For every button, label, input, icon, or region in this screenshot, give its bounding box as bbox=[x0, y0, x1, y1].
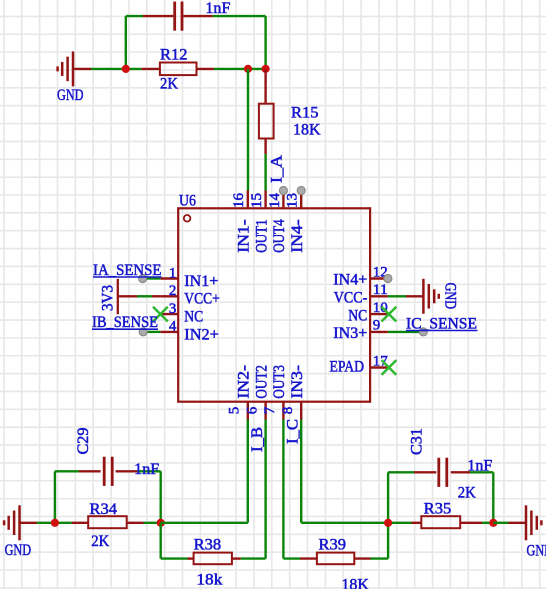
svg-text:7: 7 bbox=[262, 406, 278, 414]
svg-text:2K: 2K bbox=[91, 533, 109, 550]
svg-text:18K: 18K bbox=[341, 577, 369, 589]
svg-text:8: 8 bbox=[280, 407, 296, 415]
svg-text:IN2+: IN2+ bbox=[184, 326, 219, 343]
svg-text:1: 1 bbox=[169, 265, 177, 281]
svg-text:VCC-: VCC- bbox=[334, 290, 368, 307]
svg-text:16: 16 bbox=[231, 193, 247, 209]
svg-text:17: 17 bbox=[373, 353, 389, 369]
svg-text:1nF: 1nF bbox=[205, 0, 230, 17]
svg-text:18K: 18K bbox=[293, 122, 321, 139]
svg-text:4: 4 bbox=[169, 319, 177, 335]
svg-text:I_B: I_B bbox=[249, 427, 266, 452]
svg-text:I_A: I_A bbox=[269, 155, 286, 183]
svg-text:IN4-: IN4- bbox=[289, 219, 306, 253]
svg-text:GND: GND bbox=[442, 283, 459, 310]
svg-text:5: 5 bbox=[227, 407, 243, 415]
svg-text:10: 10 bbox=[373, 300, 388, 316]
svg-text:1nF: 1nF bbox=[467, 458, 492, 475]
svg-text:NC: NC bbox=[348, 307, 367, 324]
svg-text:R39: R39 bbox=[319, 536, 347, 553]
svg-text:R38: R38 bbox=[194, 536, 222, 553]
svg-text:IN1+: IN1+ bbox=[184, 273, 218, 290]
svg-text:OUT4: OUT4 bbox=[271, 219, 288, 253]
svg-text:C29: C29 bbox=[75, 428, 92, 455]
svg-text:18k: 18k bbox=[196, 572, 222, 589]
svg-text:IN2-: IN2- bbox=[236, 365, 253, 399]
svg-text:IN3+: IN3+ bbox=[333, 325, 367, 342]
svg-text:6: 6 bbox=[244, 406, 260, 414]
svg-text:NC: NC bbox=[184, 309, 203, 326]
svg-text:1nF: 1nF bbox=[134, 461, 159, 478]
svg-text:R15: R15 bbox=[291, 105, 319, 122]
svg-text:IN4+: IN4+ bbox=[333, 272, 367, 289]
svg-text:3V3: 3V3 bbox=[100, 285, 117, 311]
svg-text:U6: U6 bbox=[179, 193, 196, 210]
svg-text:R34: R34 bbox=[90, 501, 118, 518]
svg-text:IN3-: IN3- bbox=[289, 365, 306, 399]
svg-text:EPAD: EPAD bbox=[330, 358, 365, 375]
svg-text:I_C: I_C bbox=[285, 419, 302, 444]
svg-text:OUT1: OUT1 bbox=[253, 219, 270, 253]
svg-text:9: 9 bbox=[373, 318, 381, 334]
svg-text:C31: C31 bbox=[409, 428, 426, 455]
svg-text:2K: 2K bbox=[160, 76, 178, 93]
svg-text:2K: 2K bbox=[458, 485, 476, 502]
svg-text:GND: GND bbox=[5, 542, 32, 559]
svg-text:GND: GND bbox=[57, 87, 84, 104]
svg-text:11: 11 bbox=[373, 282, 388, 298]
svg-text:OUT2: OUT2 bbox=[253, 365, 270, 399]
svg-text:14: 14 bbox=[267, 193, 283, 209]
svg-text:3: 3 bbox=[169, 301, 177, 317]
svg-text:15: 15 bbox=[249, 193, 265, 208]
svg-text:13: 13 bbox=[285, 193, 301, 208]
svg-text:R12: R12 bbox=[160, 46, 188, 63]
svg-text:OUT3: OUT3 bbox=[271, 365, 288, 399]
svg-text:2: 2 bbox=[169, 283, 177, 299]
svg-text:R35: R35 bbox=[424, 501, 452, 518]
svg-text:IN1-: IN1- bbox=[236, 219, 253, 253]
svg-text:VCC+: VCC+ bbox=[184, 291, 220, 308]
svg-text:GND: GND bbox=[527, 543, 546, 560]
